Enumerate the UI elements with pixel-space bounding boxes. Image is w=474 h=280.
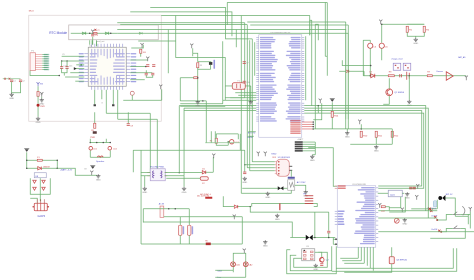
wire LED mid xyxy=(37,96,39,104)
MCU right pin labels xyxy=(131,53,137,82)
gnd label mcu xyxy=(101,102,103,104)
mcu bot wire 2 xyxy=(101,90,103,100)
u5 left wire 1 xyxy=(333,238,337,240)
ac line y222 xyxy=(143,222,292,237)
wire J3 up xyxy=(30,198,37,203)
led ind bot xyxy=(216,143,228,145)
ground R11 xyxy=(374,145,379,152)
capacitor C14 xyxy=(60,67,63,69)
cap pair drop 1 xyxy=(145,70,147,73)
flag lamp xyxy=(243,249,246,254)
svg-text:GND: GND xyxy=(182,192,187,194)
net tick 2 xyxy=(9,78,11,80)
resistor R8 xyxy=(388,75,394,77)
net tick 1 xyxy=(4,78,6,80)
led ind left xyxy=(215,134,217,138)
HLK coil right xyxy=(161,171,162,178)
svg-text:GACHI: GACHI xyxy=(37,215,45,218)
wire power down xyxy=(331,102,333,129)
LED LD1 xyxy=(89,146,93,150)
connector P1 body xyxy=(30,53,35,71)
MCU left and right pins xyxy=(84,54,130,82)
RV2 label xyxy=(205,240,208,242)
power flag above MCU xyxy=(91,30,94,35)
ground ULN xyxy=(242,177,247,184)
svg-text:+BATT: +BATT xyxy=(297,138,304,141)
spk stub1 xyxy=(89,139,91,143)
u5 bottom bus 6 xyxy=(372,247,374,271)
bottom right v xyxy=(467,214,469,224)
wire C6 down xyxy=(381,48,383,60)
BZ1 label xyxy=(446,194,453,196)
wire C5 down xyxy=(369,48,371,75)
big loop left upper xyxy=(132,150,134,172)
wire RTC to MCU 2 xyxy=(91,40,93,45)
resistor R17 xyxy=(381,206,385,208)
U6 out wire xyxy=(290,170,292,177)
svg-text:GND: GND xyxy=(263,246,268,248)
ground analog xyxy=(407,100,412,107)
xtal col 1 xyxy=(222,100,224,104)
spk j2 xyxy=(96,142,98,144)
power right join xyxy=(56,160,58,168)
ground crystal xyxy=(248,100,253,107)
junction caps gnd xyxy=(59,75,61,77)
flag ldo xyxy=(416,184,419,189)
D4 label xyxy=(43,166,51,168)
wire P1 bottom loop xyxy=(30,71,59,76)
xtal bottom wire 2 xyxy=(180,105,225,107)
svg-text:BZ1 5V: BZ1 5V xyxy=(446,194,453,196)
lamp box xyxy=(233,253,246,277)
ac junction xyxy=(250,206,252,208)
red vert label xyxy=(279,203,281,210)
cap CX2 feed xyxy=(188,209,190,226)
wire vbat down xyxy=(381,24,383,43)
varistor RV2 xyxy=(206,243,211,246)
svg-text:LDO: LDO xyxy=(390,194,395,196)
LED LD3 xyxy=(230,140,234,144)
long rail y128 xyxy=(313,128,392,130)
LED pad xyxy=(93,131,97,134)
u5 bus left 1 xyxy=(340,257,358,259)
CX2 label vert xyxy=(192,226,193,234)
svg-text:+BATT_4.2V: +BATT_4.2V xyxy=(60,168,73,171)
ground left caps xyxy=(9,93,14,100)
row B riser xyxy=(314,212,316,237)
wire caps bottom join xyxy=(12,82,21,93)
wire flag down xyxy=(313,103,322,120)
CX1 bottom xyxy=(179,235,181,244)
flag ldo right xyxy=(415,195,418,200)
cap C14 label xyxy=(64,65,67,67)
wire LED top xyxy=(37,86,39,91)
wire vbat right xyxy=(382,23,425,25)
rail 1 to switches xyxy=(304,106,426,211)
live label xyxy=(217,277,222,279)
connector P1 refdes xyxy=(31,50,34,52)
svg-text:PWR: PWR xyxy=(90,137,95,139)
opto U9 pins xyxy=(303,250,313,260)
bus line 6 xyxy=(120,24,247,26)
resistor right mcu wire xyxy=(140,53,142,57)
rail stub xyxy=(317,106,319,114)
neutral label xyxy=(217,269,222,272)
power flag power section xyxy=(24,149,29,152)
svg-text:Speaker: Speaker xyxy=(96,160,104,163)
diode DB4 xyxy=(42,187,46,190)
wire y1 left down xyxy=(224,86,226,100)
reset label vert xyxy=(213,60,215,69)
diode on y71 xyxy=(346,70,349,73)
svg-text:R2: R2 xyxy=(41,94,43,96)
rail drop left 2 xyxy=(183,108,185,176)
label below U4 red xyxy=(272,157,276,159)
ground opto xyxy=(313,264,318,271)
HLK module body xyxy=(150,169,165,181)
transistor Q1 xyxy=(386,89,393,96)
ground LED xyxy=(36,117,41,124)
wire J2 gnd link xyxy=(312,154,315,156)
U4 title xyxy=(270,32,291,34)
bowtie right wire xyxy=(313,236,336,238)
diode D2 in RTC xyxy=(105,32,109,35)
comparator U3 triangle xyxy=(446,72,453,81)
switch SW1 xyxy=(453,212,461,215)
diode D5 xyxy=(202,171,206,174)
junction in RTC xyxy=(89,33,91,35)
R14 label xyxy=(334,115,339,117)
lamp wire 1 xyxy=(215,269,233,271)
onoff dot 1 xyxy=(436,219,438,221)
LDO U10 body xyxy=(388,190,402,197)
swd wire 2 xyxy=(130,66,146,68)
charge link y71 xyxy=(339,70,364,72)
onoff wire 1 xyxy=(378,217,437,219)
lamp wire 2 xyxy=(215,276,246,278)
net cross 0 xyxy=(430,210,432,212)
LD1 label xyxy=(93,148,98,150)
capacitor C12 pol xyxy=(407,72,410,80)
wire y119 xyxy=(118,118,158,120)
bridge out xyxy=(39,194,41,201)
j4 left link xyxy=(143,208,164,210)
capacitor right mcu 2 xyxy=(152,65,155,67)
wire cap top MCU xyxy=(92,37,94,45)
svg-text:C15: C15 xyxy=(69,65,72,67)
svg-text:GND: GND xyxy=(374,151,379,153)
R2 label xyxy=(426,29,430,31)
u5 left wire 2 xyxy=(333,243,337,245)
svg-text:GND: GND xyxy=(265,197,270,199)
wire PA0 xyxy=(76,64,84,66)
onoff wire 0 xyxy=(378,210,437,212)
xtal bottom wire 1 xyxy=(180,103,223,105)
ground top right xyxy=(413,38,418,45)
U4 osc pin wire 1 xyxy=(235,92,256,94)
Q2 label xyxy=(326,259,330,261)
transistor T1 circle xyxy=(130,91,134,95)
black bowtie TVS xyxy=(306,235,313,241)
wire RTC to MCU 1 xyxy=(89,40,91,45)
R5 label xyxy=(91,130,94,132)
big loop top xyxy=(133,149,245,151)
pwr j2 xyxy=(26,168,28,170)
U7 display body xyxy=(288,177,295,191)
junction LSE b xyxy=(66,60,68,62)
LA2 label xyxy=(249,263,253,266)
spk j1 xyxy=(90,142,92,144)
svg-text:GND: GND xyxy=(142,192,147,194)
pwr j4 xyxy=(57,168,59,170)
wire boot0 xyxy=(248,131,256,133)
wire y100 mcu xyxy=(123,99,162,101)
flag u5 right top xyxy=(401,208,404,213)
U7 label xyxy=(297,181,306,184)
wire Q1 down xyxy=(383,96,389,105)
D5 label xyxy=(202,168,205,170)
capacitor C17 xyxy=(409,187,412,189)
connector J4 xyxy=(160,206,164,217)
flag at 361 xyxy=(358,120,361,125)
rail j 361 xyxy=(361,128,363,130)
spk small text xyxy=(84,168,87,170)
j4 j1 xyxy=(168,208,170,210)
opto out wire2 xyxy=(332,248,457,271)
terminal J3 xyxy=(34,203,47,211)
diode black pair xyxy=(278,186,284,190)
crystal mark in RTC xyxy=(93,32,97,34)
wire cap drop 2 xyxy=(66,61,68,67)
wire PA1 xyxy=(74,68,84,70)
svg-text:C1: C1 xyxy=(13,80,15,82)
U4 red net rows xyxy=(290,120,314,134)
wire x180 drop xyxy=(179,78,181,101)
charge IC box b xyxy=(403,63,411,70)
wire U7 side xyxy=(295,185,306,190)
capacitor C2 xyxy=(19,80,22,82)
flag uln a xyxy=(257,152,260,157)
chain small label xyxy=(458,56,466,59)
capacitor C15 xyxy=(65,67,68,69)
svg-text:3V3: 3V3 xyxy=(40,83,43,85)
F2 label xyxy=(202,183,205,185)
hlk in wire 1 xyxy=(141,172,151,174)
bus column 1 xyxy=(240,15,242,193)
bus corner 309 xyxy=(309,15,311,35)
svg-text:Q3 IRF540: Q3 IRF540 xyxy=(396,259,407,261)
battery label xyxy=(60,168,73,171)
lamp LA1 xyxy=(231,262,236,267)
flag r17 xyxy=(378,203,381,208)
resistor right mcu label xyxy=(143,52,147,54)
R9 label xyxy=(427,72,430,74)
bus column 4 xyxy=(249,40,251,171)
svg-text:charge_mod: charge_mod xyxy=(391,58,402,60)
opto label xyxy=(306,246,309,248)
C8 label xyxy=(130,125,133,127)
nested col x345 xyxy=(345,22,347,119)
capacitor C6 circle xyxy=(379,43,384,48)
svg-text:GND: GND xyxy=(242,182,247,184)
chain j1 xyxy=(370,75,372,77)
C17 label xyxy=(413,188,416,190)
bus stub 236 xyxy=(235,30,237,48)
u5 bottom bus 2 xyxy=(360,247,362,261)
resistor R5 xyxy=(94,123,96,128)
chain wire xyxy=(363,75,466,77)
flag right x161 xyxy=(159,85,162,90)
mcu bot flag 1 xyxy=(94,104,96,106)
wire gnd mid stub xyxy=(346,129,348,131)
buzzer bottom rail xyxy=(411,208,437,210)
ldo in wire xyxy=(378,192,389,194)
led ind top xyxy=(216,133,238,135)
svg-text:BAT_AD: BAT_AD xyxy=(458,56,466,59)
diode DB3 xyxy=(33,187,37,190)
bus line 309h xyxy=(241,14,310,16)
hlk left gnd drop xyxy=(144,176,146,187)
X2 cap CX1 xyxy=(179,225,182,235)
cap CX1 feed xyxy=(179,217,181,226)
LED LD2 xyxy=(108,146,112,150)
IC U6 ULN body xyxy=(276,159,289,176)
connector P1 pins xyxy=(35,55,47,70)
nested top y24 xyxy=(250,24,348,26)
ac row A xyxy=(252,203,318,206)
svg-text:Y2: Y2 xyxy=(97,30,99,32)
diode D4 xyxy=(38,167,42,170)
fuse F1 xyxy=(37,159,42,161)
reset j xyxy=(197,77,199,79)
cap pair join xyxy=(146,75,153,77)
buck col 1 xyxy=(210,131,212,143)
charge IC marks xyxy=(395,65,409,69)
j4 j2 xyxy=(175,208,177,210)
ac right riser xyxy=(241,217,243,244)
d5 out wire xyxy=(206,171,214,173)
wire vbat left branch xyxy=(369,40,371,43)
junction y100 xyxy=(202,100,204,102)
resistor right mcu xyxy=(140,49,142,53)
flag swdio xyxy=(146,57,149,62)
resistor R11 xyxy=(375,131,377,137)
mcu bot wire 1 xyxy=(94,90,96,105)
pwr j3 xyxy=(57,160,59,162)
nested corner e xyxy=(325,55,327,57)
U4 bottom label xyxy=(297,138,304,141)
capacitor C5 circle xyxy=(368,43,373,48)
bus col corner 2 xyxy=(225,97,245,99)
capacitor C1 xyxy=(10,80,13,82)
junction LSE a xyxy=(61,60,63,62)
f2 wire xyxy=(166,177,200,179)
capacitor C8 xyxy=(127,124,130,126)
switch return 2 xyxy=(430,228,465,238)
wire u5 x333 xyxy=(332,237,334,244)
cap label above MCU xyxy=(95,35,98,37)
ground hlk right xyxy=(182,187,187,194)
LDO label xyxy=(390,194,395,196)
wire left caps top xyxy=(3,78,21,80)
flag switch right xyxy=(469,207,472,212)
svg-text:SWD: SWD xyxy=(271,153,277,155)
wire x117 bot xyxy=(117,90,119,120)
ground hlk left xyxy=(142,187,147,194)
resistor R3 xyxy=(197,63,199,68)
svg-text:1N5819: 1N5819 xyxy=(43,166,51,168)
svg-text:AC IN: AC IN xyxy=(159,202,165,205)
wire to battery label xyxy=(57,168,97,175)
U4 left label a xyxy=(248,132,256,134)
U8 label xyxy=(35,176,39,178)
U6 in dot xyxy=(244,164,246,166)
wire flag361 xyxy=(360,124,362,129)
wire R12 col xyxy=(391,129,393,144)
led ind link xyxy=(228,142,229,146)
bus top drop 1 xyxy=(326,2,328,75)
fuse F2 xyxy=(200,177,208,181)
U4 right col x305 xyxy=(305,36,307,100)
U6 right pin marks xyxy=(289,166,292,170)
wire T1 down xyxy=(131,95,133,100)
capacitor C above MCU xyxy=(91,34,94,36)
svg-text:Q1 S8050: Q1 S8050 xyxy=(394,92,405,94)
svg-text:U4 STM32F103RCT6: U4 STM32F103RCT6 xyxy=(270,32,291,34)
wire y79 right xyxy=(130,79,145,81)
U6 input wire 1 xyxy=(252,161,275,163)
pwr j1 xyxy=(26,160,28,162)
bus stub 168 xyxy=(167,30,169,74)
diode D7 in RTC xyxy=(139,32,142,34)
nested corner d xyxy=(315,24,318,40)
svg-text:GND: GND xyxy=(36,122,41,124)
q3 bot wire xyxy=(344,264,392,273)
U4 pin wire 4 xyxy=(223,99,257,101)
flag label xyxy=(40,83,43,85)
arc symbol xyxy=(462,206,465,215)
nested col x348 xyxy=(347,25,349,119)
RTC Module label xyxy=(49,31,67,35)
power left join xyxy=(26,160,28,168)
nested right col 1 xyxy=(311,20,313,105)
capacitor C18 xyxy=(413,187,416,189)
rail 4 to U5 xyxy=(304,113,424,188)
rail drop left 1 xyxy=(178,106,180,173)
onoff wire 2 xyxy=(378,231,474,233)
transistor Q3 body xyxy=(389,257,394,264)
pot wire xyxy=(396,217,398,219)
junction in RTC 2 xyxy=(110,33,112,35)
R11 label xyxy=(378,135,383,137)
wire y1 right down xyxy=(250,86,252,100)
nested right col 2 xyxy=(314,24,316,129)
MCU pin names xyxy=(90,49,125,85)
wire x206 drop xyxy=(205,101,207,143)
LED label xyxy=(90,137,95,139)
ground J2 xyxy=(310,155,315,162)
U5 title xyxy=(352,184,367,186)
bus line 4 xyxy=(161,14,241,16)
flag battery xyxy=(90,171,93,176)
buzzer coil xyxy=(97,156,103,157)
U6 cap chain xyxy=(244,150,246,172)
wire caps to gnd rail xyxy=(63,73,65,76)
resistor R1 top right xyxy=(406,26,408,32)
C2 label xyxy=(22,80,24,82)
wire r4 xyxy=(180,77,194,79)
power wire bottom xyxy=(27,167,58,169)
